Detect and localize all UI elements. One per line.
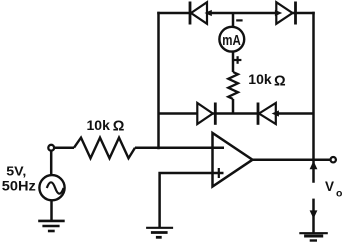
wire: bridge left edge bbox=[157, 13, 160, 148]
wire: terminal to source bbox=[50, 151, 53, 175]
svg-text:10k: 10k bbox=[87, 117, 111, 133]
ground (output) bbox=[299, 233, 328, 240]
wire: R2 to bottom row bbox=[232, 99, 235, 114]
svg-text:Ω: Ω bbox=[113, 119, 125, 135]
op-amp U1 bbox=[213, 133, 253, 187]
resistor R2 (10k, vertical) bbox=[228, 72, 238, 99]
current arrow at output node (up) bbox=[310, 161, 318, 169]
wire: bridge top edge bbox=[159, 12, 314, 15]
diode D1 (top-left, pointing left) bbox=[190, 2, 207, 25]
wire: bridge bottom row bbox=[159, 112, 314, 115]
wire: stub from top edge to meter bbox=[232, 13, 235, 27]
wire: terminal to R1 bbox=[55, 146, 74, 149]
svg-text:mA: mA bbox=[222, 33, 241, 49]
svg-text:V: V bbox=[325, 179, 334, 194]
wire: R1 to op-amp inverting input bbox=[135, 146, 224, 149]
ground (source) bbox=[38, 221, 64, 231]
label minus (meter polarity) bbox=[236, 19, 242, 21]
svg-text:Ω: Ω bbox=[274, 73, 286, 89]
current arrow into D2 bbox=[275, 10, 282, 16]
output terminal circle bbox=[331, 157, 336, 162]
label 10k ohm (R1) bbox=[87, 117, 125, 135]
meter mA bbox=[219, 27, 244, 52]
wire: ground to op-amp non-inverting input bbox=[160, 173, 224, 227]
label 10k ohm (R2) bbox=[248, 71, 286, 89]
ground (non-inverting input) bbox=[146, 228, 173, 238]
wire: meter to R2 bbox=[232, 52, 235, 72]
svg-text:o: o bbox=[336, 188, 342, 200]
diode D3 (bottom-left, pointing right) bbox=[197, 103, 215, 125]
wire: op-amp output to terminal bbox=[253, 158, 331, 161]
svg-text:50Hz: 50Hz bbox=[2, 178, 36, 193]
diode D2 (top-right, pointing right) bbox=[276, 2, 295, 25]
svg-text:10k: 10k bbox=[248, 71, 272, 87]
source VS (5V 50Hz AC) bbox=[39, 175, 64, 200]
current arrow into D4 bbox=[272, 110, 279, 116]
current arrow into D1 bbox=[205, 10, 212, 16]
label 5V 50Hz bbox=[2, 163, 36, 193]
diode D4 (bottom-right, pointing left) bbox=[258, 103, 276, 125]
label Vo bbox=[325, 179, 342, 200]
svg-text:5V,: 5V, bbox=[6, 163, 26, 178]
label plus (meter polarity) bbox=[234, 56, 242, 64]
label plus (op-amp non-inverting input) bbox=[218, 168, 220, 178]
current arrow to ground (down) bbox=[310, 210, 318, 218]
resistor R1 (10k, horizontal) bbox=[74, 138, 135, 159]
wire: Vo to ground bbox=[312, 199, 315, 233]
wire: bridge right edge bbox=[312, 13, 315, 182]
wire: source to ground bbox=[50, 201, 53, 221]
input terminal circle bbox=[48, 145, 54, 151]
